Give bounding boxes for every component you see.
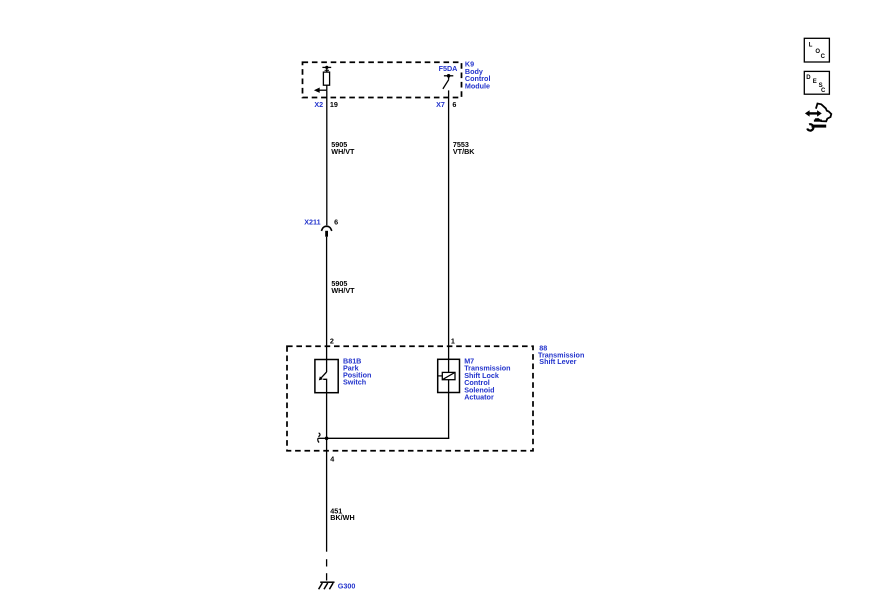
svg-text:Shift Lever: Shift Lever — [539, 357, 576, 366]
svg-text:1: 1 — [451, 337, 455, 346]
svg-text:X7: X7 — [436, 100, 445, 109]
M7 solenoid element — [438, 375, 443, 377]
svg-text:C: C — [821, 88, 826, 94]
svg-text:D: D — [806, 75, 811, 81]
svg-text:F5DA: F5DA — [439, 64, 458, 73]
dashed wire segment to ground — [326, 559, 328, 566]
harness box 88 Transmission Shift Lever (dashed outline) — [287, 346, 533, 451]
wire label 7553 VT/BK — [453, 140, 475, 156]
node dot at fuse top — [325, 66, 328, 69]
svg-text:C: C — [821, 54, 826, 60]
wire from F5DA down to M7 (7553) — [448, 90, 450, 359]
splice stub with break hook — [318, 437, 327, 439]
label 88 Transmission Shift Lever — [538, 344, 584, 367]
wire B81B down to junction — [326, 393, 328, 439]
ground G300 — [319, 582, 335, 589]
svg-text:E: E — [813, 79, 817, 85]
B81B switch blade — [321, 372, 326, 378]
svg-text:Module: Module — [465, 82, 490, 91]
svg-text:6: 6 — [334, 217, 338, 226]
label B81B Park Position Switch — [343, 356, 371, 386]
icon LOC button — [804, 38, 829, 62]
svg-text:4: 4 — [330, 454, 334, 463]
icon DESC button — [804, 71, 829, 94]
svg-text:6: 6 — [452, 100, 456, 109]
module box K9 Body Control Module (dashed outline) — [303, 62, 462, 97]
svg-text:L: L — [809, 43, 813, 49]
svg-text:BK/WH: BK/WH — [330, 513, 354, 522]
svg-text:19: 19 — [330, 100, 338, 109]
wire label 5905 WH/VT (upper) — [331, 140, 355, 156]
X211 socket arc — [321, 226, 331, 231]
svg-text:WH/VT: WH/VT — [331, 286, 355, 295]
wire 451 BK/WH junction to ground — [326, 438, 328, 551]
junction node — [325, 437, 329, 441]
wire from fuse to X211 (5905) — [326, 90, 328, 225]
switch B81B box — [315, 360, 338, 393]
X211 pin blade — [325, 231, 328, 237]
svg-text:2: 2 — [330, 337, 334, 346]
svg-text:VT/BK: VT/BK — [453, 147, 475, 156]
svg-text:WH/VT: WH/VT — [331, 147, 355, 156]
svg-text:X211: X211 — [304, 217, 320, 226]
svg-text:Actuator: Actuator — [464, 393, 494, 402]
wire label 451 BK/WH — [330, 506, 354, 522]
B81B contact — [323, 379, 326, 392]
svg-text:G300: G300 — [338, 582, 356, 591]
solenoid M7 box — [438, 359, 460, 392]
svg-text:X2: X2 — [314, 100, 323, 109]
label K9 Body Control Module — [465, 59, 491, 90]
wire horizontal M7 to junction — [327, 437, 450, 439]
wire M7 down to junction row — [448, 393, 450, 439]
svg-text:Switch: Switch — [343, 378, 366, 387]
label M7 Transmission Shift Lock Control Solenoid Actuator — [464, 357, 510, 402]
fuse element inside K9 (left) — [322, 67, 331, 90]
wire X211 to B81B — [326, 237, 328, 360]
contact dot F5DA — [447, 74, 451, 78]
B81B internal wire stub — [326, 360, 328, 373]
M7 wire through box — [448, 359, 450, 392]
arrow circuit continuation (points left) — [314, 88, 327, 93]
wire label 5905 WH/VT (lower) — [331, 279, 355, 295]
icon vehicle-arrow-wrench — [805, 104, 831, 131]
